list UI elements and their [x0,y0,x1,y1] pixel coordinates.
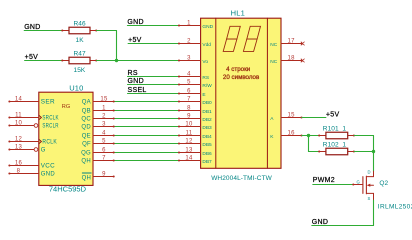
transistor Q2 IRLML2502 [352,169,412,210]
svg-text:6: 6 [102,147,106,153]
wire QD to DB3 [114,126,179,128]
wire K to R101 [302,135,319,137]
HL1 pin 2 Vdd [178,38,211,48]
HL1 pin 17 NC [270,38,304,48]
svg-text:17: 17 [288,38,296,44]
svg-text:4: 4 [187,71,191,77]
HL1 pin 1 GND [178,20,214,30]
HL1 pin 13 DB6 [178,147,212,157]
resistor R102 1 [318,141,355,154]
U10 pin 12 RCLK [8,136,57,145]
svg-text:QH: QH [82,175,92,181]
wire R46 to corner [97,30,117,32]
wire down to R102 [308,136,310,152]
svg-text:9: 9 [187,113,191,119]
wire to R102 left [309,151,319,153]
svg-text:QB: QB [82,109,91,115]
U10 pin 14 SER [8,96,55,105]
svg-text:SSEL: SSEL [128,87,147,94]
svg-text:DB0: DB0 [202,100,212,106]
svg-text:13: 13 [185,147,193,153]
svg-text:S: S [368,196,371,201]
svg-text:RCLK: RCLK [42,140,57,146]
substrate arrow [368,184,374,186]
resistor R46 1K [61,20,97,44]
HL1 pin 9 DB2 [178,113,212,123]
wire QA to DB0 [114,101,179,103]
U10 pin 4 QE [82,130,115,139]
svg-text:G: G [357,179,360,184]
svg-text:15: 15 [288,112,296,118]
svg-text:16: 16 [15,160,23,166]
U10 pin 13 G [8,144,45,153]
wire RS to HL1 [128,76,179,78]
svg-text:QG: QG [81,151,91,157]
svg-text:4 строки: 4 строки [226,66,251,73]
HL1 pin 15 A [270,112,302,122]
wire +5V to HL1 [128,43,179,45]
wire R101 right [354,135,373,137]
svg-text:20 символов: 20 символов [223,74,260,81]
svg-text:DB6: DB6 [202,151,212,157]
svg-text:Vdd: Vdd [202,42,211,48]
wire PWM2 to Q2 gate [313,184,353,186]
svg-text:GND: GND [41,172,56,178]
U10 pin 15 QA [82,96,115,105]
wire QH to DB7 [114,160,179,162]
svg-text:+5V: +5V [128,37,142,44]
svg-text:RS: RS [128,70,138,77]
svg-text:E: E [202,92,205,98]
svg-text:5: 5 [102,138,106,144]
wire R47 to HL1 Vo [97,60,179,62]
svg-text:15K: 15K [74,67,86,74]
wire corner down [116,31,118,61]
svg-text:2: 2 [102,113,106,119]
no-connect x [301,42,304,45]
svg-text:14: 14 [15,96,23,102]
drain connection [366,176,373,178]
HL1 pin 8 DB1 [178,105,212,115]
svg-text:RG: RG [62,104,70,110]
svg-text:8: 8 [187,105,191,111]
svg-text:QF: QF [82,142,91,148]
HL1 pin 4 RS [178,71,209,81]
svg-text:DB1: DB1 [202,109,212,115]
svg-text:10: 10 [185,121,193,127]
svg-text:11: 11 [15,112,22,118]
HL1 pin 6 E [178,88,206,98]
display glyph 8 (left) [223,26,240,51]
wire R102 right [354,151,373,153]
junction drain node [372,150,375,153]
junction Vo node [115,59,118,62]
svg-text:1: 1 [102,105,106,111]
svg-text:4: 4 [102,130,106,136]
HL1 pin 12 DB5 [178,138,212,148]
wire QE to DB4 [114,135,179,137]
svg-text:GND: GND [312,219,328,226]
svg-text:SRCLK: SRCLK [42,116,58,122]
svg-text:R/W: R/W [202,83,212,89]
HL1 pin 7 DB0 [178,96,212,106]
svg-text:QD: QD [81,125,91,131]
U10 pin 1 QB [82,105,115,114]
svg-text:DB5: DB5 [202,142,212,148]
U10 pin 7 QH [81,155,114,164]
svg-text:11: 11 [186,130,193,136]
LCD module HL1 WH2004L-TMI-CTW [201,8,281,182]
svg-text:9: 9 [102,171,106,177]
svg-text:1: 1 [342,125,346,132]
wire to Q2 drain [373,152,375,172]
svg-text:DB4: DB4 [202,134,212,140]
U10 pin 11 SRCLK [8,112,58,121]
wire bottom to GND [312,225,374,227]
svg-text:PWM2: PWM2 [313,177,335,184]
wire QF to DB5 [114,143,179,145]
channel bar [365,176,367,194]
wire SSEL to HL1 [128,93,179,95]
HL1 pin 11 DB4 [178,130,212,140]
svg-text:1: 1 [342,141,346,148]
U10 pin 16 VCC [8,160,55,169]
svg-text:2: 2 [187,38,191,44]
HL1 pin 10 DB3 [178,121,212,131]
display glyph 8 (right) [243,26,260,51]
resistor R101 1 [318,125,355,138]
svg-text:+5V: +5V [25,54,39,61]
svg-text:R102: R102 [323,141,339,148]
svg-text:VCC: VCC [41,164,56,170]
svg-text:GND: GND [127,19,143,26]
svg-text:NC: NC [270,42,277,48]
source connection [366,192,373,194]
svg-text:GND: GND [24,24,40,31]
wire QC to DB2 [114,118,179,120]
svg-text:12: 12 [15,136,23,142]
svg-text:3: 3 [102,121,106,127]
svg-text:GND: GND [128,78,144,85]
HL1 pin 18 NC [270,55,304,65]
svg-text:18: 18 [288,55,296,61]
wire Q2 source down [373,200,375,225]
svg-text:U10: U10 [69,84,83,93]
no-connect x [301,59,304,62]
svg-text:IRLML2502: IRLML2502 [378,203,412,210]
svg-text:QE: QE [82,134,91,140]
svg-text:3: 3 [187,55,191,61]
svg-text:1K: 1K [76,37,85,44]
svg-text:12: 12 [185,138,193,144]
wire A to +5V [302,117,326,119]
U10 pin 3 QD [81,121,114,130]
U10 pin 10 SRCLR [8,120,59,129]
svg-text:7: 7 [102,155,106,161]
gate pin [353,184,362,186]
svg-text:QA: QA [82,100,91,106]
wire QG to DB6 [114,152,179,154]
svg-text:13: 13 [15,144,23,150]
svg-text:DB2: DB2 [202,117,212,123]
svg-text:D: D [368,169,371,174]
svg-text:10: 10 [15,120,23,126]
svg-text:6: 6 [187,88,191,94]
svg-text:GND: GND [202,24,213,30]
IC U10 74HC595D [39,84,93,194]
HL1 pin 3 Vo [178,55,208,65]
wire GND to R46 [24,30,62,32]
svg-text:QH: QH [81,159,91,165]
svg-text:8: 8 [17,168,21,174]
U10 pin 6 QG [81,147,115,156]
U10 pin 8 GND [8,168,55,177]
svg-text:5: 5 [187,79,191,85]
HL1 pin 16 K [270,130,302,140]
svg-text:Q2: Q2 [379,180,388,187]
wire QB to DB1 [114,110,179,112]
svg-text:+5V: +5V [326,112,340,119]
gate bar [362,177,364,194]
HL1 pin 5 R/W [178,79,212,89]
svg-text:SER: SER [41,100,56,106]
U10 pin 5 QF [82,138,115,147]
svg-text:14: 14 [185,155,193,161]
U10 pin 2 QC [81,113,114,122]
wire +5V to R47 [25,60,62,62]
svg-text:HL1: HL1 [231,8,245,17]
HL1 pin 14 DB7 [178,155,212,165]
svg-text:G: G [41,148,46,154]
wire GND to HL1 [128,84,179,86]
wire corner down [373,136,375,152]
wire GND to HL1 [127,25,178,27]
svg-text:1: 1 [187,20,191,26]
U10 pin 9 QH' [82,171,115,181]
svg-text:74HC595D: 74HC595D [49,184,87,193]
resistor R47 15K [61,50,97,74]
svg-text:R47: R47 [74,50,87,57]
svg-text:Vo: Vo [202,59,208,65]
svg-text:R101: R101 [323,125,339,132]
svg-text:16: 16 [288,130,296,136]
svg-text:QC: QC [81,117,91,123]
svg-text:DB3: DB3 [202,125,212,131]
svg-text:RS: RS [202,75,209,81]
svg-text:7: 7 [187,96,191,102]
svg-text:R46: R46 [74,20,87,27]
svg-text:NC: NC [270,59,277,65]
svg-text:15: 15 [100,96,108,102]
svg-text:DB7: DB7 [202,159,212,165]
junction K node [307,134,310,137]
svg-text:SRCLR: SRCLR [42,124,59,130]
svg-text:WH2004L-TMI-CTW: WH2004L-TMI-CTW [211,175,272,182]
